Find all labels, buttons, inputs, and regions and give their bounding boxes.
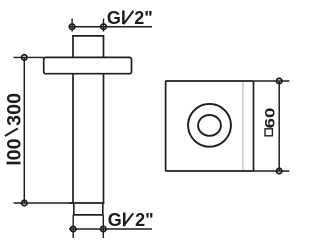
svg-text:Gl: Gl (108, 210, 127, 230)
wire right extension bottom (254, 170, 290, 172)
svg-text:2": 2" (135, 210, 154, 230)
main pipe right edge (103, 74, 105, 203)
top pipe stub (73, 36, 104, 58)
node right dimension circle bottom (277, 168, 282, 173)
wire left extension top (14, 56, 44, 58)
svg-text:Gl: Gl (107, 8, 126, 28)
bottom collar (74, 203, 103, 215)
node left dimension circle bottom (22, 200, 27, 205)
outlet inner circle (198, 115, 221, 136)
flange ceiling plate side view (44, 57, 132, 73)
wire top dimension line (69, 26, 152, 28)
wire top extension tick right (103, 19, 105, 32)
svg-text:2": 2" (134, 8, 153, 28)
square face plate front view (166, 81, 254, 171)
node left dimension circle top (22, 55, 27, 60)
wire right extension top (254, 80, 290, 82)
bottom collar base line (74, 214, 103, 216)
svg-text:300: 300 (3, 93, 25, 126)
wire bottom thread line left (72, 215, 74, 238)
wire bottom dimension line (69, 228, 152, 230)
label square glyph of square60 (265, 129, 272, 136)
wire left extension bottom (14, 202, 74, 204)
main pipe left edge (72, 74, 74, 203)
plate faint inner edge line (242, 82, 244, 170)
label 100/300: slash (5, 128, 18, 136)
wire top extension tick left (71, 19, 73, 32)
node top dimension circle left (69, 24, 74, 29)
wire bottom thread line right (102, 215, 104, 238)
wire right dimension line (278, 81, 280, 171)
label G1/2" top: slash (124, 11, 134, 24)
node bottom dimension circle right (101, 226, 106, 231)
outlet outer circle (188, 104, 231, 147)
svg-text:60: 60 (263, 108, 278, 129)
label G1/2" bottom: slash (123, 213, 133, 226)
node right dimension circle top (277, 78, 282, 83)
node top dimension circle right (101, 24, 106, 29)
svg-text:l00: l00 (3, 138, 25, 165)
node bottom dimension circle left (71, 226, 76, 231)
wire left dimension line (23, 57, 25, 203)
pipe bottom shoulder (69, 202, 105, 204)
